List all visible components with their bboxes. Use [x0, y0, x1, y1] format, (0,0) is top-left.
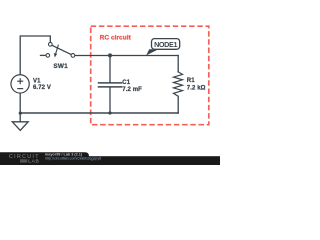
svg-text:V1: V1 — [33, 79, 41, 85]
svg-text:6.72 V: 6.72 V — [33, 85, 51, 91]
svg-text:7.2 kΩ: 7.2 kΩ — [187, 86, 206, 92]
svg-text:http://circuitlab.com/c9abb2qg: http://circuitlab.com/c9abb2qgzpy8 — [45, 156, 101, 160]
svg-text:RC circuit: RC circuit — [100, 35, 132, 42]
svg-text:NODE1: NODE1 — [154, 40, 177, 49]
svg-text:R1: R1 — [187, 78, 195, 84]
svg-text:SW1: SW1 — [53, 63, 68, 70]
svg-text:7.2 mF: 7.2 mF — [122, 87, 142, 93]
svg-text:C1: C1 — [122, 80, 130, 86]
svg-text:LAB: LAB — [28, 158, 39, 164]
